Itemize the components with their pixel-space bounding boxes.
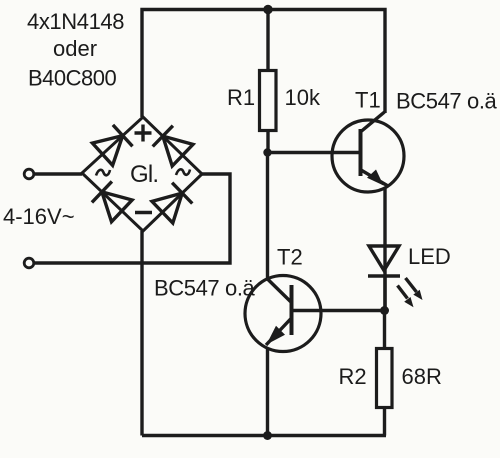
wire R1 top	[266, 10, 269, 71]
svg-text:R2: R2	[339, 364, 367, 389]
node base junction	[263, 148, 271, 156]
svg-text:Gl.: Gl.	[130, 161, 158, 188]
symbol minus	[135, 211, 152, 215]
svg-text:LED: LED	[408, 244, 451, 269]
svg-text:4-16V~: 4-16V~	[3, 204, 75, 229]
node bottom junction	[263, 431, 272, 440]
wire T2 collector	[292, 309, 385, 312]
svg-text:4x1N4148: 4x1N4148	[27, 9, 124, 34]
diode D2 top-right	[153, 126, 193, 166]
terminal lower	[24, 258, 34, 268]
svg-text:B40C800: B40C800	[28, 66, 117, 91]
svg-text:BC547 o.ä: BC547 o.ä	[396, 89, 498, 114]
wire top rail	[142, 10, 385, 118]
wire LED cathode to node	[383, 276, 386, 310]
wire T1 emitter drop	[383, 188, 386, 311]
svg-text:68R: 68R	[402, 364, 442, 389]
wire bridge minus drop	[140, 231, 143, 436]
wire R2 bottom	[383, 408, 386, 436]
wire T2 base drop	[266, 153, 269, 280]
node top junction	[263, 5, 272, 14]
svg-text:R1: R1	[227, 85, 255, 110]
LED light arrow 1	[398, 286, 414, 308]
diode D4 bottom-right	[152, 183, 192, 223]
transistor T1	[332, 112, 404, 192]
diode D3 bottom-left	[92, 181, 132, 221]
svg-text:BC547 o.ä: BC547 o.ä	[154, 276, 256, 301]
diode LED	[368, 246, 400, 276]
wire bottom rail	[142, 434, 386, 437]
wire R1 bottom	[266, 131, 269, 154]
terminal upper	[24, 169, 34, 179]
node LED junction	[380, 306, 389, 315]
svg-text:T2: T2	[277, 245, 303, 270]
svg-text:10k: 10k	[285, 85, 321, 110]
resistor R1	[260, 71, 277, 131]
symbol tilde right	[176, 169, 190, 175]
diode D1 top-left	[92, 125, 132, 165]
bridge rectifier Gl. diamond	[82, 117, 202, 231]
svg-text:oder: oder	[53, 36, 97, 61]
LED light arrow 2	[406, 278, 423, 300]
wire R2 top	[383, 311, 386, 349]
svg-text:T1: T1	[355, 88, 381, 113]
symbol tilde left	[96, 170, 110, 176]
symbol plus	[135, 125, 152, 142]
wire lower terminal to bridge right	[34, 174, 230, 263]
wire T2 emitter drop	[266, 348, 269, 436]
wire upper terminal to bridge	[34, 172, 82, 175]
resistor R2	[377, 349, 393, 408]
wire T1 base	[268, 151, 361, 154]
transistor T2	[245, 276, 321, 352]
